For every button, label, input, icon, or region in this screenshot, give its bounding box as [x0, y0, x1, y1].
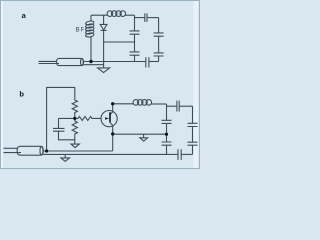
svg-text:BFI: BFI [76, 27, 88, 33]
svg-text:b: b [19, 89, 24, 98]
